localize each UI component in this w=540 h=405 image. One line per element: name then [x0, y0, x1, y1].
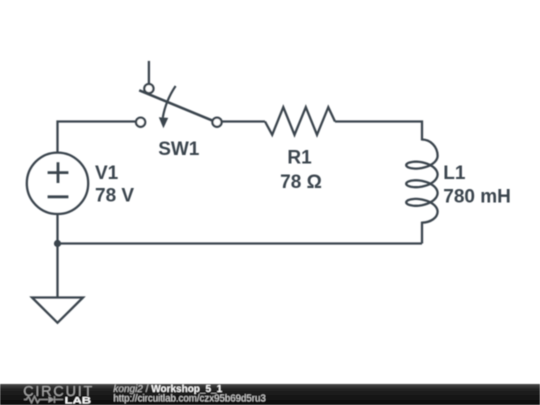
svg-text:R1: R1: [287, 148, 312, 169]
switch SW1: [136, 61, 222, 127]
inductor L1: [406, 140, 437, 223]
svg-text:LAB: LAB: [65, 396, 91, 405]
voltage source V1: [27, 153, 88, 214]
svg-text:http://circuitlab.com/czx95b69: http://circuitlab.com/czx95b69d5ru3: [113, 394, 265, 405]
wire inductor L1 bottom to bottom rail: [421, 222, 423, 244]
wire bottom rail to node A: [58, 242, 423, 244]
svg-text:780 mH: 780 mH: [443, 187, 511, 208]
footer bar: [0, 384, 540, 405]
switch SW1 arrowhead: [159, 117, 168, 128]
resistor R1: [265, 107, 335, 135]
wire V1 top to switch left terminal: [58, 122, 136, 153]
svg-text:SW1: SW1: [158, 139, 200, 160]
wire switch right terminal to resistor R1: [223, 120, 266, 122]
svg-text:78 V: 78 V: [95, 186, 134, 207]
ground: [32, 298, 83, 323]
svg-text:78 Ω: 78 Ω: [280, 172, 322, 193]
svg-text:L1: L1: [443, 163, 466, 184]
svg-text:V1: V1: [95, 163, 119, 184]
node A junction dot: [54, 240, 61, 247]
CircuitLab logo resistor-diode squiggle: [24, 396, 63, 403]
wire resistor R1 to inductor L1 top: [335, 122, 422, 141]
wire V1 bottom through node A to ground: [56, 214, 58, 298]
